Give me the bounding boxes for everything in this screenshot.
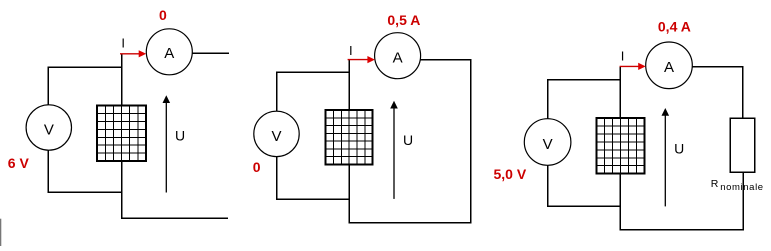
svg-text:I: I <box>621 48 625 63</box>
svg-text:I: I <box>349 43 353 58</box>
svg-text:0,5 A: 0,5 A <box>387 12 420 28</box>
svg-text:V: V <box>543 136 553 153</box>
svg-text:U: U <box>674 141 684 157</box>
svg-text:6 V: 6 V <box>8 155 30 171</box>
svg-text:5,0 V: 5,0 V <box>494 166 527 182</box>
svg-text:nominale: nominale <box>720 182 764 193</box>
svg-text:V: V <box>271 128 281 145</box>
svg-text:R: R <box>711 178 719 190</box>
svg-text:U: U <box>175 127 185 143</box>
svg-text:0: 0 <box>253 159 261 175</box>
svg-text:0,4 A: 0,4 A <box>658 19 691 35</box>
svg-text:A: A <box>664 59 674 76</box>
svg-text:I: I <box>121 35 125 50</box>
svg-text:V: V <box>44 121 54 138</box>
svg-text:0: 0 <box>159 7 167 23</box>
svg-text:U: U <box>403 132 413 148</box>
svg-text:A: A <box>393 49 403 66</box>
svg-text:A: A <box>164 45 174 62</box>
